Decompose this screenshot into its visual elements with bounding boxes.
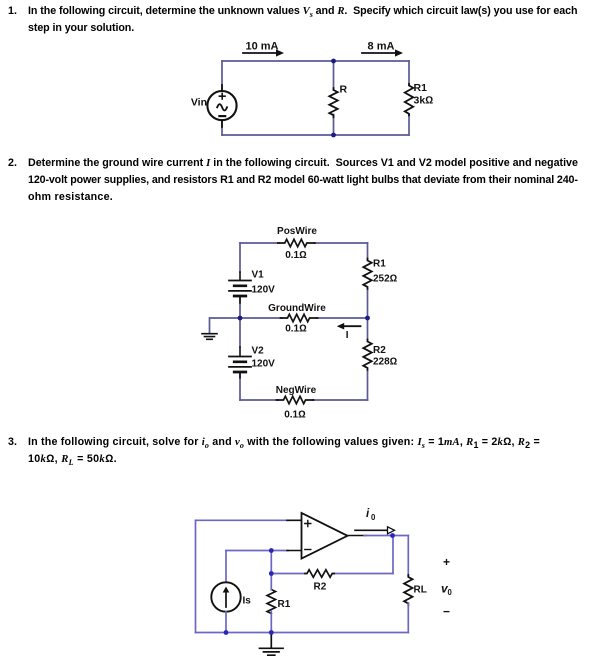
svg-text:8 mA: 8 mA [368, 41, 395, 53]
wire: RL branch upper [407, 536, 409, 576]
problem 1 text [8, 3, 17, 20]
svg-text:V1: V1 [252, 270, 265, 281]
node dot left middle [238, 316, 243, 321]
wire: circuit2 middle wire with GroundWire resistor gap [240, 317, 368, 319]
node dot top of middle branch [331, 59, 336, 64]
wire: R2 feedback row segments [271, 573, 393, 575]
battery V2 [229, 347, 251, 378]
battery V1 [229, 272, 251, 303]
svg-text:0.1Ω: 0.1Ω [284, 410, 306, 421]
wire: feedback vertical from output node [392, 536, 394, 574]
svg-text:i: i [366, 508, 370, 520]
current arrow io (open head) [355, 527, 395, 534]
wire: R1 stubs [270, 574, 272, 633]
wire: minus node vertical [270, 551, 272, 574]
node dot feedback junction [269, 571, 274, 576]
wire: circuit2 left branch segments [239, 243, 241, 400]
wire: minus input row [226, 550, 288, 552]
voltage source Vin [207, 85, 236, 127]
wire: circuit1 left branch lower segment [221, 121, 223, 136]
wire: circuit3 outer left [195, 520, 197, 632]
node dot bottom of middle branch [331, 133, 336, 138]
svg-text:R: R [340, 84, 348, 96]
current arrow I [337, 323, 361, 330]
svg-text:−: − [443, 605, 450, 619]
wire: circuit1 left branch upper segment [221, 61, 223, 91]
node dot output [390, 533, 395, 538]
wire: circuit3 bottom rail [196, 632, 409, 634]
op-amp pin stub plus input [287, 519, 302, 521]
resistor R1 (zigzag) [405, 84, 413, 115]
problem 3 text [8, 434, 17, 451]
current arrow 8 mA [362, 49, 403, 56]
ground symbol [202, 334, 217, 340]
svg-text:R1: R1 [278, 599, 291, 610]
wire: circuit2 right branch segments [367, 243, 369, 400]
node dot R1 bottom [269, 630, 274, 635]
svg-text:0.1Ω: 0.1Ω [285, 324, 307, 335]
svg-text:V2: V2 [252, 346, 265, 357]
node dot minus input [269, 548, 274, 553]
svg-text:I: I [346, 330, 349, 341]
svg-text:Vin: Vin [191, 97, 207, 109]
wire: circuit1 top wire [222, 60, 409, 62]
wire: circuit1 bottom wire [222, 134, 409, 136]
svg-text:3kΩ: 3kΩ [414, 95, 434, 107]
resistor R2 (zigzag) [363, 340, 371, 370]
wire: output row [364, 535, 408, 537]
wire: Is branch lower [225, 612, 227, 633]
wire: ground branch [210, 318, 241, 333]
ground symbol [260, 633, 284, 656]
op-amp pin stub minus input [287, 550, 302, 552]
resistor GroundWire (zigzag) [281, 314, 318, 321]
svg-text:PosWire: PosWire [277, 226, 317, 237]
problem 2 text [8, 155, 17, 172]
op-amp pin stub output [348, 535, 367, 537]
wire: plus input row [196, 519, 289, 521]
node dot Is bottom [224, 630, 229, 635]
svg-text:Is: Is [243, 596, 252, 607]
svg-text:10 mA: 10 mA [245, 41, 278, 53]
resistor R (zigzag) [329, 88, 337, 117]
wire: Is branch upper [225, 551, 227, 583]
svg-text:0: 0 [371, 513, 376, 522]
resistor R2 (zigzag) [305, 570, 334, 578]
current arrow 10 mA [243, 49, 284, 56]
svg-text:+: + [443, 555, 450, 569]
resistor NegWire (zigzag) [277, 396, 314, 403]
wire: circuit1 middle branch segments [333, 61, 335, 135]
resistor RL (zigzag) [404, 575, 412, 605]
svg-text:R2: R2 [314, 582, 327, 593]
svg-text:NegWire: NegWire [276, 385, 317, 396]
svg-text:R1: R1 [373, 259, 386, 270]
svg-text:0.1Ω: 0.1Ω [285, 250, 307, 261]
svg-text:RL: RL [414, 585, 427, 596]
svg-text:120V: 120V [252, 359, 276, 370]
wire: circuit1 right branch segments [408, 61, 410, 135]
svg-text:R1: R1 [414, 82, 428, 94]
svg-text:R2: R2 [373, 345, 386, 356]
wire: circuit2 top wire with PosWire resistor gap [240, 242, 368, 244]
svg-text:120V: 120V [252, 285, 276, 296]
svg-text:228Ω: 228Ω [373, 357, 398, 368]
current source Is [211, 582, 240, 611]
node dot right middle [365, 316, 370, 321]
svg-text:252Ω: 252Ω [373, 274, 398, 285]
wire: circuit2 bottom wire with NegWire resistor gap [240, 399, 368, 401]
svg-text:GroundWire: GroundWire [268, 303, 326, 314]
op-amp U1 [302, 513, 348, 559]
wire: RL branch lower [407, 603, 409, 633]
resistor R1 (zigzag) [267, 590, 275, 614]
resistor PosWire (zigzag) [278, 239, 315, 246]
resistor R1 (zigzag) [363, 259, 371, 289]
svg-text:0: 0 [448, 588, 453, 597]
